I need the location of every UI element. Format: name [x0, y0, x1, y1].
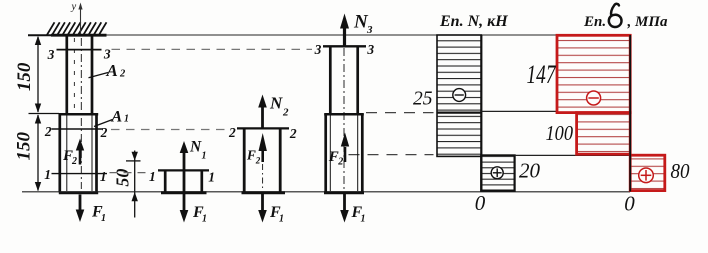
svg-text:0: 0: [475, 191, 486, 215]
svg-text:1: 1: [124, 114, 129, 125]
svg-text:1: 1: [361, 214, 366, 225]
force F1 arrow (fourth figure): [340, 194, 365, 225]
N diagram negative block 25: [437, 35, 481, 156]
svg-text:F: F: [246, 147, 256, 162]
cut bar 3 upper segment (fourth figure): [323, 46, 366, 114]
svg-text:Еп.: Еп.: [583, 14, 606, 30]
bar lower segment A1 (left figure): [59, 114, 98, 193]
force F2 arrow (left figure): [62, 139, 84, 168]
dimension line 150 (lower): [35, 114, 41, 123]
force F1 arrow (second figure): [180, 193, 207, 225]
minus sign symbol (sigma diagram): [587, 91, 601, 105]
label A1: [94, 120, 113, 127]
top reference line: [107, 34, 631, 36]
svg-text:25: 25: [413, 88, 433, 109]
cut bar 3 lower segment (fourth figure): [324, 114, 364, 193]
svg-text:F: F: [328, 149, 339, 165]
svg-text:y: y: [71, 2, 77, 13]
section line 3-3 (left figure): [57, 49, 102, 51]
dimension line 150 (upper): [29, 37, 60, 191]
sigma diagram negative block 100: [577, 113, 631, 155]
bar centerline (left figure): [80, 38, 82, 189]
sigma diagram negative block 147: [557, 35, 630, 112]
svg-text:2: 2: [44, 124, 52, 139]
svg-text:150: 150: [14, 62, 35, 91]
bar upper segment A2 (left figure): [67, 35, 92, 115]
level line to sigma axis: [515, 154, 630, 156]
minus sign symbol (N diagram): [453, 89, 466, 102]
svg-text:2: 2: [100, 125, 108, 140]
svg-text:1: 1: [101, 213, 106, 224]
svg-text:1: 1: [149, 169, 156, 184]
svg-text:147: 147: [527, 60, 557, 89]
N diagram internal divider: [437, 111, 481, 113]
svg-text:1: 1: [100, 169, 107, 184]
sigma symbol (hand-drawn): [609, 4, 622, 27]
force F1 arrow (left figure): [76, 195, 106, 225]
dashed level line section 3: [112, 48, 313, 50]
svg-text:1: 1: [202, 151, 207, 162]
force N1 arrow: [180, 139, 207, 170]
svg-text:2: 2: [119, 69, 126, 80]
dashed level line section 2: [111, 129, 228, 131]
svg-text:2: 2: [337, 157, 343, 168]
svg-text:1: 1: [44, 167, 51, 182]
svg-text:, МПа: , МПа: [627, 14, 669, 30]
svg-text:Еп. N, кН: Еп. N, кН: [439, 13, 508, 30]
svg-text:0: 0: [624, 192, 635, 216]
svg-text:3: 3: [47, 47, 55, 62]
dashed level line section 1: [110, 172, 149, 174]
svg-text:A: A: [106, 61, 118, 80]
N diagram axis: [480, 35, 482, 192]
y axis: [80, 6, 82, 34]
force F2 arrow (fourth figure): [328, 133, 349, 168]
cut bar 2 (third figure): [237, 128, 289, 192]
svg-text:2: 2: [255, 156, 261, 166]
svg-text:150: 150: [13, 131, 34, 160]
baseline: [22, 191, 630, 193]
sigma diagram axis: [629, 35, 631, 192]
svg-text:1: 1: [208, 170, 215, 185]
dashed level line F2 (to N diagram): [349, 154, 434, 156]
force F2 arrow (third figure): [246, 133, 267, 166]
svg-text:50: 50: [113, 169, 133, 187]
svg-text:2: 2: [289, 126, 297, 141]
svg-text:N: N: [189, 139, 202, 156]
support line: [51, 34, 107, 37]
centerline (fourth figure): [343, 48, 345, 190]
svg-text:2: 2: [228, 125, 236, 140]
svg-text:A: A: [111, 109, 123, 126]
svg-text:3: 3: [366, 24, 373, 36]
section line 1-1 (left figure): [52, 173, 108, 175]
sigma diagram positive block 80: [630, 155, 665, 190]
centerline (third figure): [262, 164, 264, 190]
force F1 arrow (third figure): [258, 193, 284, 225]
section line 2-2 (left figure): [52, 128, 104, 130]
fixed support hatching: [47, 22, 107, 35]
force N2 arrow: [258, 94, 289, 128]
svg-text:N: N: [269, 94, 283, 113]
svg-text:1: 1: [279, 214, 284, 225]
plus sign symbol (sigma diagram): [639, 168, 654, 183]
svg-text:3: 3: [103, 47, 111, 62]
label A2: [89, 73, 109, 78]
force N3 arrow: [340, 12, 373, 46]
svg-text:3: 3: [314, 42, 322, 57]
svg-text:100: 100: [546, 121, 574, 145]
dashed level line step (to N diagram): [366, 112, 434, 114]
plus sign symbol (N diagram): [491, 167, 503, 179]
level line N block to sigma 147 step: [481, 110, 557, 112]
svg-text:3: 3: [366, 42, 374, 57]
N diagram positive block 20: [481, 155, 514, 190]
svg-text:80: 80: [671, 159, 690, 183]
svg-text:2: 2: [282, 107, 289, 119]
svg-text:20: 20: [519, 158, 541, 182]
dimension line 50: [126, 151, 141, 218]
svg-text:1: 1: [202, 214, 207, 225]
cut bar 1 (second figure): [158, 170, 209, 192]
svg-text:2: 2: [71, 156, 77, 167]
